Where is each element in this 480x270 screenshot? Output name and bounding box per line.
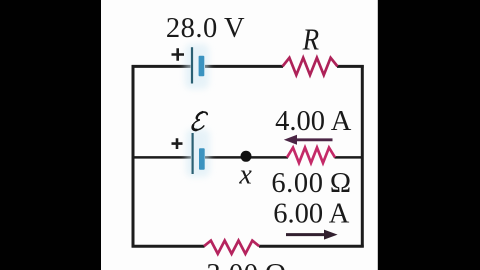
wire: top segment battery to resistor R: [205, 65, 283, 68]
left letterbox bar: [0, 0, 101, 270]
resistor R (top) zigzag: [283, 58, 338, 75]
EMF battery : short thick plate: [199, 148, 205, 169]
current arrow 6.00 A (pointing right): [286, 233, 325, 236]
svg-text:4.00 A: 4.00 A: [275, 106, 352, 137]
label R: [302, 23, 320, 57]
wire: bottom-right segment after 3-ohm resistor: [259, 245, 364, 248]
label script-E (EMF): [192, 112, 208, 130]
wire: top-left segment to battery: [132, 65, 191, 68]
battery 28.0 V : halo: [185, 44, 209, 89]
battery 28.0 V : short thick plate: [199, 56, 205, 77]
EMF battery : plus sign: [172, 138, 183, 149]
EMF battery : long thin plate: [192, 133, 194, 174]
wire: top-right segment after resistor R: [337, 65, 364, 68]
resistor 3.00 ohm (bottom) zigzag: [204, 241, 259, 254]
svg-text:6.00 A: 6.00 A: [273, 199, 350, 230]
wire: middle-right segment after 6-ohm resistor: [335, 156, 363, 159]
wire: right vertical branch: [361, 65, 364, 248]
wire: bottom-left segment to 3-ohm resistor: [132, 245, 205, 248]
wire: left vertical branch: [132, 65, 135, 248]
svg-text:3.00 Ω: 3.00 Ω: [206, 259, 286, 270]
white page background between letterbox bars: [101, 0, 378, 270]
wire: middle segment battery to 6-ohm resistor through node x: [205, 156, 288, 159]
current arrow 4.00 A (pointing left): [295, 138, 333, 141]
svg-text:6.00 Ω: 6.00 Ω: [271, 168, 351, 199]
svg-text:x: x: [238, 160, 252, 191]
resistor 6.00 ohm (middle) zigzag: [287, 148, 335, 163]
battery 28.0 V : plus sign: [172, 48, 185, 60]
right letterbox bar: [378, 0, 480, 270]
svg-text:R: R: [302, 23, 320, 57]
svg-text:28.0 V: 28.0 V: [166, 13, 245, 44]
node x : junction dot: [241, 151, 252, 162]
battery 28.0 V : long thin plate: [191, 47, 193, 83]
EMF battery : halo: [186, 129, 210, 177]
wire: middle-left segment to EMF battery: [133, 156, 191, 159]
